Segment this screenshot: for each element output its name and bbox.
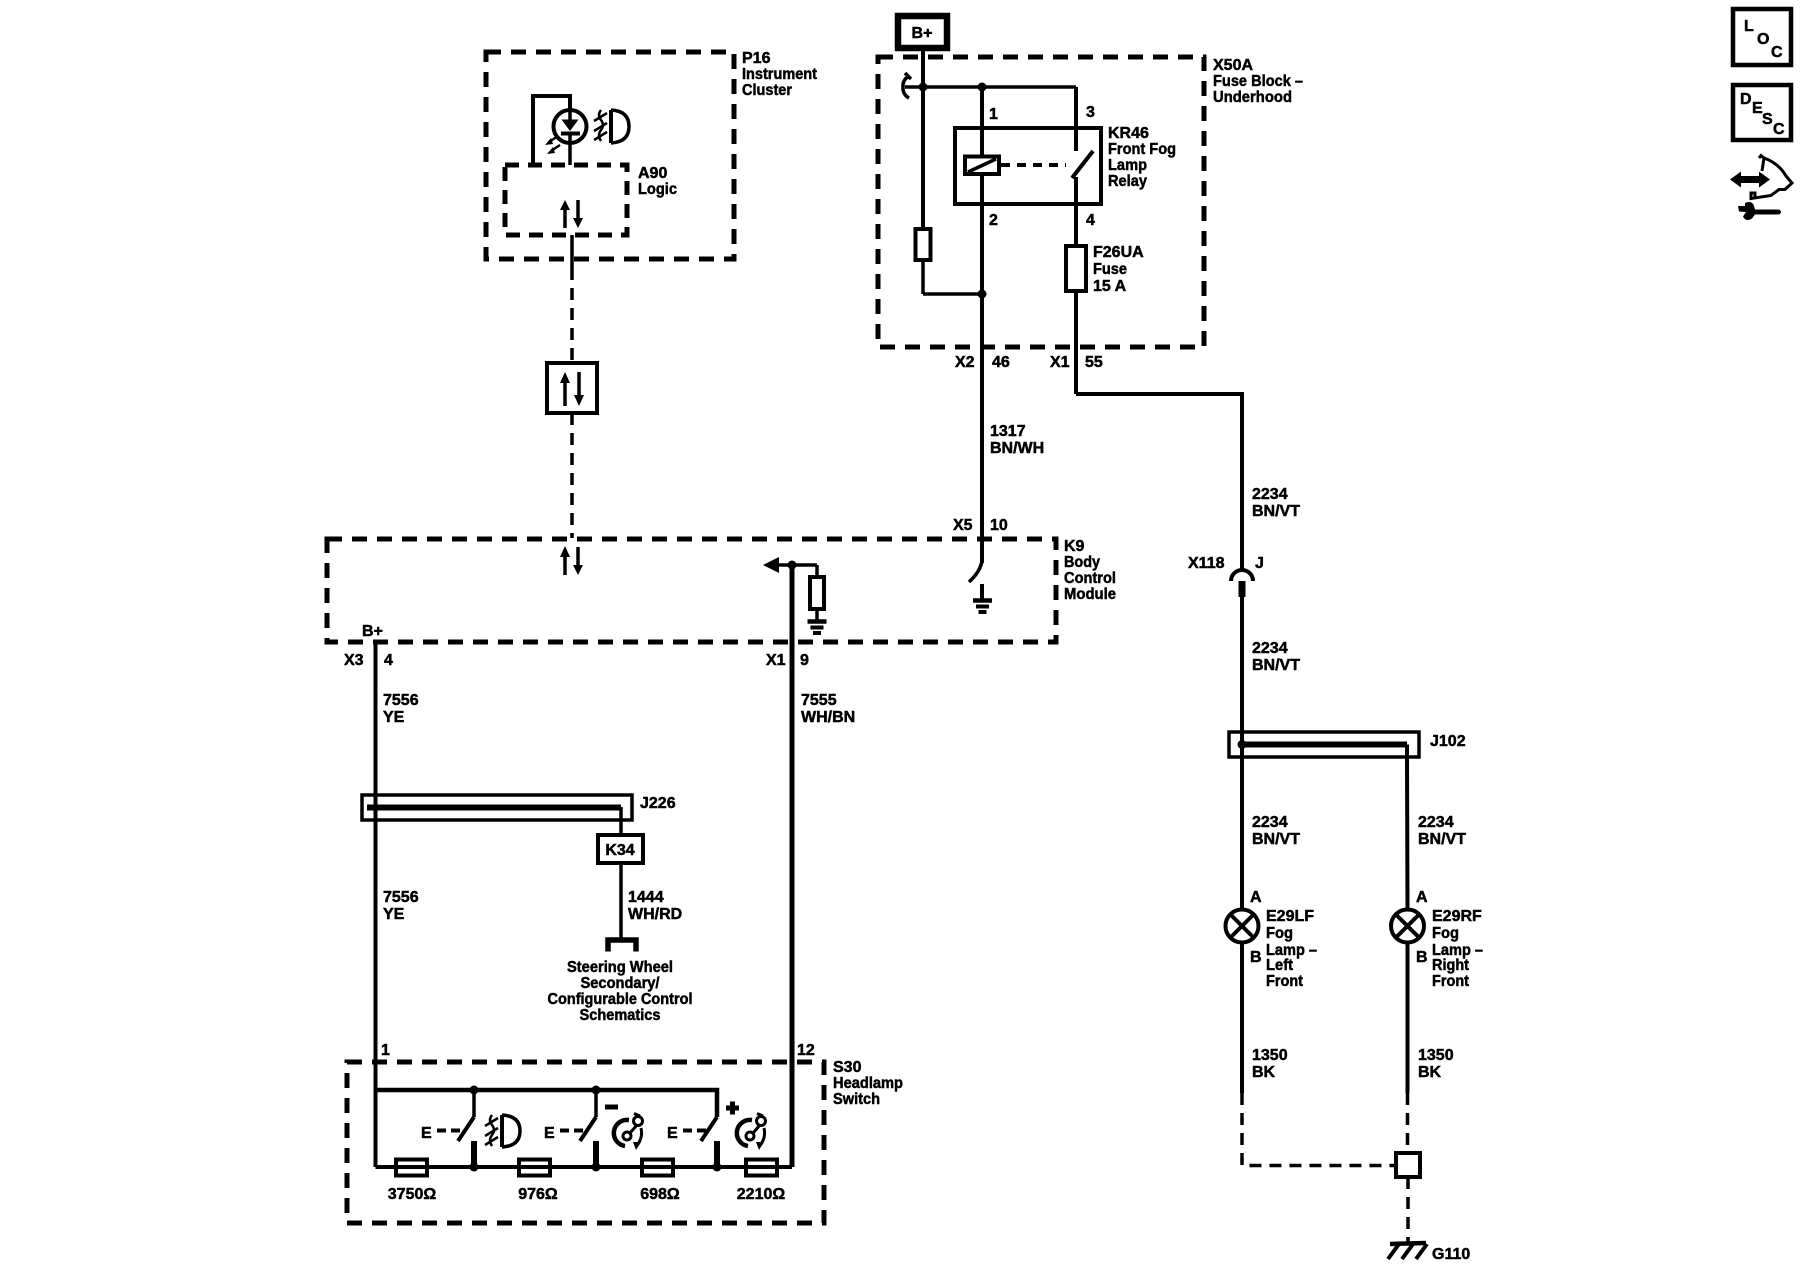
svg-text:12: 12 [797, 1042, 815, 1059]
node coil feed junction [978, 83, 987, 92]
relay actuation dashed link [1001, 163, 1066, 167]
dashed ground run left [1242, 1093, 1394, 1166]
svg-text:Configurable Control: Configurable Control [548, 991, 693, 1008]
serial data link box [547, 363, 597, 413]
svg-text:Instrument: Instrument [742, 66, 818, 83]
svg-text:YE: YE [383, 906, 405, 923]
svg-text:2234: 2234 [1252, 640, 1288, 657]
pin 1 of S30 [381, 1042, 390, 1059]
svg-text:X2: X2 [955, 354, 975, 371]
svg-text:4: 4 [1086, 212, 1095, 229]
svg-text:F26UA: F26UA [1093, 244, 1144, 261]
svg-text:1350: 1350 [1252, 1047, 1288, 1064]
S30 right leg wire [790, 1072, 795, 1167]
S30 left leg [374, 1090, 378, 1167]
resistor 3750 ohm [388, 1160, 437, 1204]
node switch1 rail junction [470, 1163, 479, 1172]
svg-text:B: B [1416, 949, 1428, 966]
svg-text:E29LF: E29LF [1266, 908, 1314, 925]
svg-text:D: D [1740, 91, 1752, 108]
steering wheel schematics note [548, 959, 693, 1024]
fuse block box X50A [878, 57, 1303, 347]
svg-text:3750Ω: 3750Ω [388, 1186, 437, 1203]
wire J226 to K34 [619, 807, 623, 835]
svg-text:Schematics: Schematics [580, 1007, 661, 1024]
svg-text:Fog: Fog [1266, 925, 1293, 942]
svg-text:976Ω: 976Ω [518, 1186, 558, 1203]
svg-text:X1: X1 [766, 652, 786, 669]
node switch3 rail junction [713, 1163, 722, 1172]
svg-text:Cluster: Cluster [742, 82, 792, 99]
svg-text:X5: X5 [953, 517, 973, 534]
wire 1350 BK left [1242, 942, 1288, 1093]
svg-text:1350: 1350 [1418, 1047, 1454, 1064]
svg-text:Logic: Logic [638, 181, 677, 198]
A90 up/down arrows [560, 200, 583, 228]
svg-text:C: C [1773, 121, 1785, 138]
svg-text:WH/BN: WH/BN [801, 709, 855, 726]
svg-text:B+: B+ [362, 623, 383, 640]
dashed wire to G110 [1406, 1177, 1410, 1242]
svg-text:7555: 7555 [801, 692, 837, 709]
inline connector X118 J [1188, 555, 1264, 597]
svg-text:A90: A90 [638, 165, 667, 182]
wrench icon [1738, 202, 1781, 220]
loc reference box [1733, 9, 1791, 65]
switch 3 dim plus [667, 1102, 739, 1168]
svg-text:Control: Control [1064, 570, 1116, 587]
switch 1 fog [421, 1090, 474, 1167]
instrument cluster box P16 [486, 50, 818, 259]
K9 serial data arrows [560, 546, 583, 575]
node J102 junction [1238, 740, 1247, 749]
fog lamp E29LF [1226, 908, 1318, 990]
wire J102 right to lamp [1407, 745, 1466, 911]
svg-text:Steering Wheel: Steering Wheel [567, 959, 673, 976]
gauge dimmer icon 1 [614, 1114, 643, 1151]
svg-text:10: 10 [990, 517, 1008, 534]
svg-text:WH/RD: WH/RD [628, 906, 682, 923]
fog lamp icon in cluster [594, 110, 629, 143]
svg-text:E: E [667, 1125, 678, 1142]
svg-text:Fuse: Fuse [1093, 261, 1127, 278]
svg-text:Switch: Switch [833, 1091, 880, 1108]
resistor coil suppressor [916, 229, 983, 294]
navigation pointer icon [1730, 156, 1792, 199]
svg-text:J102: J102 [1430, 733, 1466, 750]
svg-text:55: 55 [1085, 354, 1103, 371]
K9 internal driver switch [969, 539, 982, 582]
svg-text:O: O [1757, 31, 1769, 48]
svg-text:2234: 2234 [1418, 814, 1454, 831]
svg-text:S: S [1762, 111, 1773, 128]
svg-text:9: 9 [800, 652, 809, 669]
wire data link to K9 [570, 413, 574, 538]
fog lamp icon in S30 [485, 1115, 520, 1147]
wire pin1 drop [982, 87, 998, 157]
svg-text:BN/WH: BN/WH [990, 440, 1044, 457]
svg-text:X3: X3 [344, 652, 364, 669]
relay KR46 [955, 125, 1176, 204]
wire fuse to right branch [1076, 394, 1300, 570]
ground symbol under resistor [808, 622, 827, 634]
dashed ground run right [1406, 1093, 1410, 1153]
ground G110 [1388, 1243, 1470, 1263]
node driver junction [788, 561, 797, 570]
wire J102 left to lamp [1242, 744, 1300, 910]
svg-text:Fog: Fog [1432, 925, 1459, 942]
ground symbol in K9 [973, 584, 992, 612]
svg-text:X1: X1 [1050, 354, 1070, 371]
wire pin2 to X2-46 [955, 294, 1010, 539]
off page reference bracket [608, 940, 636, 952]
wire pin3 drop [1076, 87, 1095, 151]
svg-text:E: E [421, 1125, 432, 1142]
svg-text:Right: Right [1432, 957, 1470, 974]
svg-text:L: L [1744, 18, 1754, 35]
wire pin4 to X1-55 [1050, 291, 1103, 394]
svg-text:BN/VT: BN/VT [1418, 831, 1466, 848]
svg-text:2: 2 [989, 212, 998, 229]
svg-text:J226: J226 [640, 795, 676, 812]
wire X118 to J102 [1242, 597, 1300, 744]
svg-text:KR46: KR46 [1108, 125, 1149, 142]
K9 output driver arrow [763, 557, 817, 573]
svg-text:698Ω: 698Ω [640, 1186, 680, 1203]
ground splice block [1396, 1153, 1420, 1177]
LED emission arrows [545, 136, 560, 154]
logic block A90 [505, 165, 677, 235]
svg-text:P16: P16 [742, 50, 771, 67]
svg-text:Body: Body [1064, 554, 1100, 571]
svg-text:7556: 7556 [383, 889, 419, 906]
svg-text:Module: Module [1064, 586, 1116, 603]
svg-text:Lamp: Lamp [1108, 157, 1147, 174]
splice pack J226 [362, 795, 676, 820]
svg-text:2234: 2234 [1252, 486, 1288, 503]
svg-text:Fuse Block –: Fuse Block – [1213, 73, 1303, 90]
svg-text:S30: S30 [833, 1059, 862, 1076]
wire from A90 down (serial data) [570, 235, 574, 363]
svg-text:B+: B+ [912, 25, 933, 42]
horizontal feed wire [905, 85, 1076, 89]
node B+ feed junction [919, 83, 928, 92]
svg-text:Secondary/: Secondary/ [581, 975, 661, 992]
svg-text:C: C [1771, 44, 1783, 61]
K9 internal pull resistor [810, 565, 824, 620]
wire 7556 YE upper [376, 642, 419, 1090]
resistor 976 ohm [518, 1160, 558, 1204]
svg-text:Relay: Relay [1108, 173, 1147, 190]
connector K34 [598, 835, 643, 863]
svg-text:Front: Front [1432, 973, 1470, 990]
node bus junction 2 [592, 1086, 601, 1095]
svg-text:K9: K9 [1064, 538, 1085, 555]
svg-text:BN/VT: BN/VT [1252, 831, 1300, 848]
indicator LED P16 lamp [554, 110, 587, 165]
svg-text:Front: Front [1266, 973, 1304, 990]
pin X3-4 [344, 652, 393, 669]
wire 1317 BN/WH label [990, 423, 1044, 457]
svg-text:15 A: 15 A [1093, 278, 1127, 295]
fog lamp E29RF [1391, 908, 1483, 990]
svg-text:J: J [1255, 555, 1264, 572]
gauge dimmer icon 2 [737, 1114, 766, 1151]
svg-text:B: B [1250, 949, 1262, 966]
node B+ label in K9 [362, 623, 383, 640]
svg-text:4: 4 [384, 652, 393, 669]
pin X1-9 [766, 652, 809, 669]
svg-text:YE: YE [383, 709, 405, 726]
S30 top bus [376, 1090, 718, 1117]
svg-text:1: 1 [381, 1042, 390, 1059]
svg-text:E: E [544, 1125, 555, 1142]
svg-text:X50A: X50A [1213, 57, 1253, 74]
battery feed B+ [898, 16, 947, 48]
resistor 698 ohm [640, 1160, 680, 1204]
node bus junction 1 [470, 1086, 479, 1095]
relay coil [965, 151, 999, 294]
pin 12 of S30 [797, 1042, 815, 1059]
pin X5-10 [953, 517, 1008, 534]
svg-text:2234: 2234 [1252, 814, 1288, 831]
svg-text:G110: G110 [1432, 1246, 1470, 1263]
svg-text:A: A [1416, 889, 1428, 906]
wire 7555 WH/BN [792, 565, 855, 1072]
relay switch contact [989, 151, 1095, 246]
svg-text:BK: BK [1418, 1064, 1442, 1081]
wire 1350 BK right [1408, 942, 1454, 1093]
svg-text:Underhood: Underhood [1213, 89, 1292, 106]
svg-text:1317: 1317 [990, 423, 1026, 440]
wire B+ into fuse block [921, 48, 925, 229]
wire 7556 YE lower label [383, 889, 419, 923]
svg-text:7556: 7556 [383, 692, 419, 709]
svg-text:3: 3 [1086, 104, 1095, 121]
svg-text:Headlamp: Headlamp [833, 1075, 903, 1092]
headlamp switch box S30 [347, 1059, 903, 1223]
node switch2 rail junction [592, 1163, 601, 1172]
S30 bottom rail [376, 1165, 793, 1169]
svg-text:2210Ω: 2210Ω [737, 1186, 786, 1203]
svg-text:1: 1 [989, 106, 998, 123]
desc reference box [1733, 85, 1791, 140]
svg-text:K34: K34 [605, 842, 634, 859]
svg-text:BK: BK [1252, 1064, 1276, 1081]
switch 2 dim minus [544, 1090, 618, 1167]
wire loop to indicator lamp [533, 96, 570, 165]
svg-text:46: 46 [992, 354, 1010, 371]
svg-text:BN/VT: BN/VT [1252, 657, 1300, 674]
node pin2 junction [978, 290, 987, 299]
svg-text:E29RF: E29RF [1432, 908, 1482, 925]
svg-text:Left: Left [1266, 957, 1294, 974]
svg-text:1444: 1444 [628, 889, 664, 906]
body control module box K9 [327, 538, 1116, 642]
svg-text:Front Fog: Front Fog [1108, 141, 1176, 158]
resistor 2210 ohm [737, 1160, 786, 1204]
connector clip symbol [903, 73, 911, 98]
svg-text:X118: X118 [1188, 555, 1225, 572]
svg-text:A: A [1250, 889, 1262, 906]
splice J102 [1229, 732, 1466, 757]
svg-text:BN/VT: BN/VT [1252, 503, 1300, 520]
fuse F26UA 15A [1066, 244, 1144, 295]
wire 1444 WH/RD [621, 863, 682, 939]
